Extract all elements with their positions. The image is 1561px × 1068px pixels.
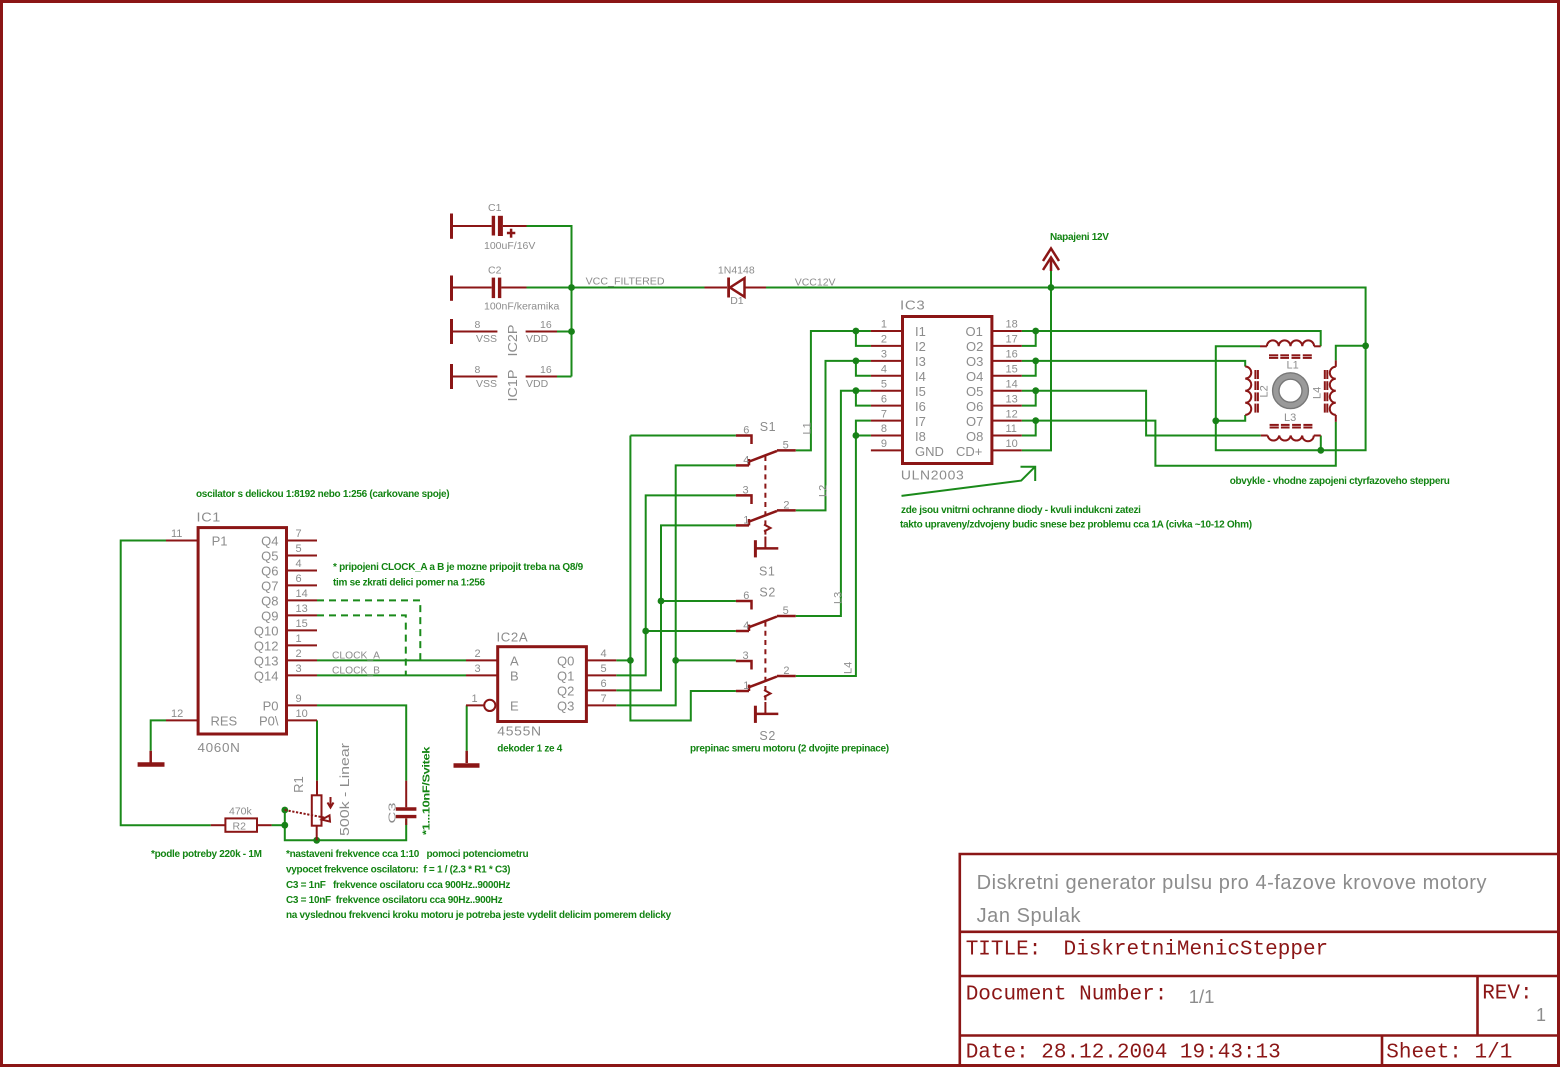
svg-text:Q6: Q6 [261,564,278,579]
svg-text:DiskretniMenicStepper: DiskretniMenicStepper [1064,939,1329,962]
svg-text:3: 3 [475,663,481,675]
svg-text:12: 12 [1006,408,1018,420]
svg-text:1: 1 [743,680,749,692]
svg-text:O3: O3 [966,354,983,369]
svg-text:Q13: Q13 [254,653,279,668]
svg-text:100nF/keramika: 100nF/keramika [484,301,559,313]
svg-text:I2: I2 [915,339,926,354]
svg-text:4: 4 [881,364,887,376]
svg-text:Q10: Q10 [254,623,279,638]
svg-text:I1: I1 [915,324,926,339]
svg-text:1: 1 [296,633,302,645]
svg-text:14: 14 [296,588,308,600]
svg-text:5: 5 [881,378,887,390]
svg-text:*1...10nF/Svitek: *1...10nF/Svitek [422,746,433,835]
svg-text:8: 8 [881,423,887,435]
svg-text:7: 7 [601,693,607,705]
svg-text:L3: L3 [1284,412,1296,424]
svg-text:Document Number:: Document Number: [966,984,1168,1007]
svg-text:6: 6 [881,393,887,405]
svg-text:Q7: Q7 [261,578,278,593]
svg-text:4: 4 [743,620,749,632]
svg-text:I5: I5 [915,384,926,399]
svg-text:O8: O8 [966,429,983,444]
svg-text:Q9: Q9 [261,608,278,623]
svg-text:S2: S2 [759,586,776,600]
svg-text:O2: O2 [966,339,983,354]
svg-text:6: 6 [743,425,749,437]
svg-text:Q8: Q8 [261,593,278,608]
svg-text:S1: S1 [759,565,776,579]
svg-text:2: 2 [783,665,789,677]
svg-text:* pripojeni CLOCK_A a B je moz: * pripojeni CLOCK_A a B je mozne pripoji… [333,562,584,573]
svg-text:E: E [510,699,519,714]
svg-text:REV:: REV: [1482,983,1532,1006]
svg-text:7: 7 [296,528,302,540]
svg-text:15: 15 [1006,364,1018,376]
svg-text:P0\: P0\ [259,713,279,728]
svg-text:D1: D1 [730,295,744,307]
svg-text:2: 2 [881,334,887,346]
svg-text:prepinac smeru motoru (2 dvoji: prepinac smeru motoru (2 dvojite prepina… [690,744,889,755]
svg-text:Q3: Q3 [557,699,574,714]
svg-text:R2: R2 [233,821,247,833]
svg-text:3: 3 [296,663,302,675]
svg-text:L1: L1 [1287,360,1299,372]
svg-text:IC3: IC3 [900,299,926,313]
svg-text:ULN2003: ULN2003 [901,469,965,483]
svg-text:14: 14 [1006,378,1018,390]
svg-text:5: 5 [601,663,607,675]
svg-text:16: 16 [540,319,552,331]
svg-text:zde jsou vnitrni ochranne diod: zde jsou vnitrni ochranne diody - kvuli … [901,505,1141,516]
svg-text:L4: L4 [1312,387,1324,399]
svg-text:2: 2 [475,648,481,660]
svg-text:VCC12V: VCC12V [795,277,836,289]
svg-text:L2: L2 [1259,385,1271,397]
svg-text:17: 17 [1006,334,1018,346]
svg-text:O5: O5 [966,384,983,399]
svg-text:takto upraveny/zdvojeny budic: takto upraveny/zdvojeny budic snese bez … [900,520,1252,531]
svg-text:12: 12 [171,708,183,720]
svg-text:IC2A: IC2A [497,631,529,645]
svg-text:1: 1 [1536,1005,1546,1025]
svg-text:470k: 470k [229,806,253,818]
svg-text:Q4: Q4 [261,534,278,549]
svg-text:A: A [510,654,519,669]
svg-text:*nastaveni frekvence cca 1:10: *nastaveni frekvence cca 1:10 pomoci pot… [286,849,528,860]
svg-text:2: 2 [296,648,302,660]
svg-text:6: 6 [601,678,607,690]
svg-text:100uF/16V: 100uF/16V [484,240,535,252]
svg-text:1: 1 [743,515,749,527]
svg-text:RES: RES [211,714,238,729]
svg-text:4: 4 [601,648,607,660]
svg-text:7: 7 [881,408,887,420]
svg-text:8: 8 [475,364,481,376]
svg-text:500k - Linear: 500k - Linear [337,742,352,836]
svg-text:1: 1 [881,319,887,331]
svg-text:10: 10 [296,708,308,720]
svg-text:CLOCK_A: CLOCK_A [332,650,380,662]
svg-text:1N4148: 1N4148 [718,265,755,277]
svg-text:3: 3 [743,650,749,662]
svg-text:GND: GND [915,444,944,459]
svg-text:Date: 28.12.2004 19:43:13: Date: 28.12.2004 19:43:13 [966,1042,1281,1065]
svg-text:*podle potreby 220k - 1M: *podle potreby 220k - 1M [151,849,262,860]
svg-text:L3: L3 [833,592,845,604]
svg-text:O1: O1 [966,324,983,339]
svg-text:VDD: VDD [526,333,549,345]
svg-text:16: 16 [1006,349,1018,361]
svg-text:VSS: VSS [476,333,497,345]
svg-text:I8: I8 [915,429,926,444]
svg-text:5: 5 [783,440,789,452]
svg-text:L1: L1 [802,422,814,434]
svg-text:O7: O7 [966,414,983,429]
svg-text:I3: I3 [915,354,926,369]
svg-text:18: 18 [1006,319,1018,331]
svg-text:Q12: Q12 [254,638,279,653]
svg-text:VCC_FILTERED: VCC_FILTERED [586,276,665,288]
svg-text:C3 = 1nF frekvence oscilator: C3 = 1nF frekvence oscilatoru cca 900Hz.… [286,880,510,891]
svg-text:VDD: VDD [526,378,549,390]
svg-text:I4: I4 [915,369,926,384]
svg-text:Jan Spulak: Jan Spulak [977,905,1082,927]
svg-text:tim se zkrati delici pomer na: tim se zkrati delici pomer na 1:256 [333,578,486,589]
svg-text:obvykle - vhodne zapojeni ctyr: obvykle - vhodne zapojeni ctyrfazoveho s… [1230,476,1450,487]
svg-text:6: 6 [743,590,749,602]
svg-text:13: 13 [1006,393,1018,405]
svg-text:13: 13 [296,603,308,615]
svg-text:15: 15 [296,618,308,630]
svg-text:B: B [510,669,519,684]
svg-text:Napajeni 12V: Napajeni 12V [1050,232,1109,243]
svg-text:R1: R1 [291,776,306,793]
svg-text:S2: S2 [759,729,776,743]
svg-text:oscilator s delickou 1:8192 ne: oscilator s delickou 1:8192 nebo 1:256 (… [196,489,449,500]
svg-text:CD+: CD+ [956,444,982,459]
svg-text:16: 16 [540,364,552,376]
svg-text:IC1: IC1 [197,511,222,525]
svg-text:Q1: Q1 [557,669,574,684]
svg-text:TITLE:: TITLE: [966,939,1042,962]
svg-text:I6: I6 [915,399,926,414]
svg-text:C1: C1 [488,202,502,214]
svg-text:C3 = 10nF frekvence oscilator: C3 = 10nF frekvence oscilatoru cca 90Hz.… [286,895,503,906]
svg-text:Q5: Q5 [261,549,278,564]
svg-text:1/1: 1/1 [1189,986,1215,1007]
svg-text:C3: C3 [387,802,399,823]
svg-text:I7: I7 [915,414,926,429]
svg-text:10: 10 [1006,438,1018,450]
svg-text:11: 11 [171,528,182,540]
svg-text:3: 3 [743,485,749,497]
svg-text:O4: O4 [966,369,983,384]
svg-text:IC1P: IC1P [505,370,520,402]
svg-text:3: 3 [881,349,887,361]
svg-text:C2: C2 [488,265,502,277]
svg-text:IC2P: IC2P [505,325,520,357]
svg-text:11: 11 [1006,423,1017,435]
svg-text:4060N: 4060N [198,741,241,755]
svg-text:1: 1 [472,693,478,705]
svg-text:4555N: 4555N [497,725,542,739]
svg-text:L2: L2 [818,485,830,497]
svg-text:O6: O6 [966,399,983,414]
svg-text:8: 8 [475,319,481,331]
svg-text:CLOCK_B: CLOCK_B [332,665,380,677]
svg-text:Q0: Q0 [557,654,574,669]
svg-text:P0: P0 [263,698,279,713]
svg-text:4: 4 [296,558,302,570]
svg-text:Sheet: 1/1: Sheet: 1/1 [1386,1042,1512,1065]
svg-text:Q14: Q14 [254,668,279,683]
svg-text:5: 5 [783,605,789,617]
svg-text:dekoder 1 ze 4: dekoder 1 ze 4 [497,744,562,755]
svg-text:vypocet frekvence oscilatoru:: vypocet frekvence oscilatoru: f = 1 / (2… [286,865,510,876]
svg-text:P1: P1 [212,534,228,549]
svg-text:Diskretni generator pulsu pro: Diskretni generator pulsu pro 4-fazove k… [977,872,1487,894]
svg-text:4: 4 [743,455,749,467]
svg-text:9: 9 [881,438,887,450]
svg-text:VSS: VSS [476,378,497,390]
svg-text:S1: S1 [760,420,777,434]
svg-text:9: 9 [296,693,302,705]
svg-text:na vyslednou frekvenci kroku m: na vyslednou frekvenci kroku motoru je p… [286,910,672,921]
svg-text:L4: L4 [843,662,855,674]
svg-text:6: 6 [296,573,302,585]
svg-text:Q2: Q2 [557,684,574,699]
svg-text:5: 5 [296,543,302,555]
svg-text:2: 2 [783,500,789,512]
